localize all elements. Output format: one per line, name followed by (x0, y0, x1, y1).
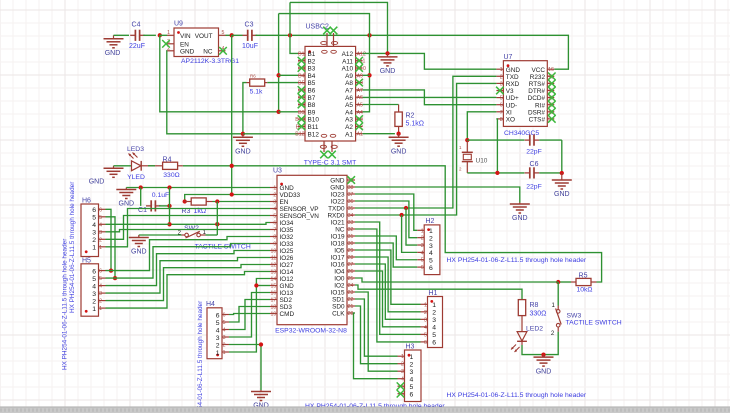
junction A9 VBUS (367, 73, 371, 77)
label LED3 (127, 146, 144, 153)
wire 3V3 LED rail to R5 loop (183, 166, 602, 282)
svg-text:31: 31 (348, 234, 354, 240)
svg-text:4: 4 (401, 377, 404, 383)
svg-text:A1: A1 (357, 132, 363, 138)
switch SW2 (182, 231, 206, 238)
svg-text:IO4: IO4 (334, 269, 345, 276)
svg-text:16: 16 (271, 291, 277, 297)
value 5.1k (250, 89, 263, 96)
svg-text:4: 4 (92, 283, 96, 290)
svg-text:6: 6 (421, 265, 424, 271)
svg-text:IO25: IO25 (280, 248, 294, 255)
crystal U10 (462, 140, 473, 173)
H2 pin stubs (417, 230, 424, 267)
wire B4 to VBUS (279, 74, 298, 76)
value 22pF lower (526, 184, 542, 191)
no-connect X on U9 NC (219, 47, 227, 55)
svg-text:2: 2 (401, 362, 404, 368)
svg-text:5: 5 (421, 258, 424, 264)
svg-text:A9: A9 (357, 73, 363, 79)
wire R8 to LED2 (521, 316, 523, 332)
wire ground to LED3 (114, 165, 132, 167)
svg-text:5.1kΩ: 5.1kΩ (406, 121, 424, 128)
label R3 (182, 208, 191, 215)
value YLED (127, 174, 145, 181)
led LED2 (511, 332, 527, 352)
label R5 (579, 273, 588, 280)
svg-text:5.1k: 5.1k (250, 89, 263, 96)
svg-text:GND: GND (506, 67, 521, 74)
value ESP32-WROOM-32-N8 (275, 327, 347, 334)
svg-text:6: 6 (424, 340, 427, 346)
U3 pin names (280, 178, 346, 319)
USBC2 pin numbers (295, 51, 366, 137)
svg-text:26: 26 (348, 269, 354, 275)
svg-text:SD0: SD0 (332, 304, 345, 311)
svg-text:11: 11 (271, 256, 276, 262)
H2 pin numbers (421, 228, 433, 272)
svg-text:3: 3 (410, 369, 414, 376)
svg-text:5: 5 (410, 384, 414, 391)
svg-text:6: 6 (92, 207, 96, 214)
svg-text:3: 3 (401, 369, 404, 375)
resistor R8 330 (518, 300, 525, 316)
value 0.1uF (152, 192, 169, 199)
wire C4 to VIN junction (143, 34, 156, 36)
svg-text:0.1uF: 0.1uF (152, 192, 169, 199)
svg-text:3: 3 (223, 335, 226, 341)
wire H4 pin5 to SD3 (229, 307, 270, 323)
SW2 pin numbers (178, 230, 207, 236)
svg-text:IO18: IO18 (331, 241, 345, 248)
wire LED3 to R4 (141, 165, 155, 167)
svg-text:4: 4 (273, 207, 276, 213)
svg-text:RI#: RI# (535, 102, 545, 109)
wire H5 pin1 to IO14 (106, 272, 271, 309)
junction IO34 rail at EN vertical (167, 222, 171, 226)
svg-text:IO34: IO34 (280, 220, 294, 227)
ground GND left of EN rail (116, 188, 136, 208)
U7 pin numbers (500, 67, 554, 123)
wire VBUS left vertical (278, 14, 280, 112)
resistor R4 330 (155, 162, 183, 169)
wire A6 to U7 UD+ (363, 96, 497, 98)
svg-text:A4: A4 (357, 110, 363, 116)
svg-text:IO14: IO14 (280, 269, 294, 276)
svg-text:IO23: IO23 (331, 192, 345, 199)
label H1 (429, 290, 438, 297)
svg-text:XO: XO (506, 117, 515, 124)
wire SD0 to H3 pin2 (355, 306, 398, 364)
svg-text:27: 27 (348, 262, 354, 268)
ground GND below SW2 (129, 235, 149, 256)
junction LED2 ground node (541, 352, 545, 356)
ground GND left of LED3 (89, 166, 124, 186)
svg-text:H1: H1 (429, 290, 438, 297)
svg-text:20: 20 (348, 311, 354, 317)
svg-text:1: 1 (424, 302, 427, 308)
svg-text:3: 3 (273, 200, 276, 206)
junction H6 pin5 node (113, 276, 117, 280)
svg-text:5: 5 (216, 320, 220, 327)
svg-text:3: 3 (424, 317, 427, 323)
svg-text:1: 1 (92, 306, 96, 313)
svg-text:DSR#: DSR# (528, 109, 545, 116)
svg-text:3: 3 (216, 335, 220, 342)
svg-text:TXD: TXD (506, 74, 519, 81)
svg-text:1: 1 (429, 228, 433, 235)
label SW3 (567, 313, 582, 320)
U7 pin stubs (496, 69, 554, 119)
junction ground rail B12 (241, 132, 245, 136)
svg-text:VIN: VIN (180, 33, 191, 40)
svg-text:33: 33 (348, 220, 354, 226)
junction R3 right node (215, 199, 219, 203)
svg-text:IO22: IO22 (331, 199, 345, 206)
svg-text:B4: B4 (308, 73, 316, 80)
svg-text:34: 34 (348, 213, 354, 219)
junction H4 pin2 ground node (259, 342, 263, 346)
svg-text:1: 1 (421, 228, 424, 234)
value H4 vertical header text (197, 300, 204, 409)
value H3 header text (447, 392, 587, 399)
value 330ohm R8 (530, 310, 547, 317)
wire GND rail to U3 GND1 (126, 187, 270, 189)
svg-text:H2: H2 (426, 218, 435, 225)
connector H2 body (424, 225, 440, 275)
svg-text:6: 6 (223, 313, 226, 319)
svg-text:4: 4 (99, 222, 102, 228)
svg-text:2: 2 (99, 299, 102, 305)
svg-text:22pF: 22pF (526, 184, 542, 191)
label H5 (82, 257, 91, 264)
svg-text:R4: R4 (163, 156, 172, 163)
ground GND below H4 (251, 390, 271, 410)
junction H6 pin6 node (109, 268, 113, 272)
svg-text:IO13: IO13 (280, 290, 294, 297)
svg-text:5: 5 (424, 332, 427, 338)
svg-text:2: 2 (99, 237, 102, 243)
svg-text:54-01-06-Z-L11.5 through hole: 54-01-06-Z-L11.5 through hole header (197, 300, 204, 409)
svg-text:SD1: SD1 (332, 297, 345, 304)
svg-text:IO15: IO15 (331, 290, 345, 297)
svg-text:6: 6 (500, 103, 503, 109)
wire H4 pin3 to IO13 (229, 293, 270, 338)
svg-text:1: 1 (410, 354, 414, 361)
svg-text:4: 4 (432, 325, 436, 332)
svg-text:6: 6 (432, 340, 436, 347)
svg-text:18: 18 (271, 305, 277, 311)
svg-text:C3: C3 (245, 22, 254, 29)
svg-text:A10: A10 (342, 66, 354, 73)
ground GND below R6 (233, 134, 253, 156)
label R6 (250, 74, 256, 79)
ground GND below R2 (389, 134, 409, 156)
junction SW2 node (215, 222, 219, 226)
svg-text:5: 5 (273, 214, 276, 220)
svg-text:SW2: SW2 (184, 225, 199, 232)
svg-text:4: 4 (92, 222, 96, 229)
svg-text:CMD: CMD (280, 311, 295, 318)
svg-text:5: 5 (99, 276, 102, 282)
svg-text:16: 16 (548, 67, 554, 73)
wire 3V3 vertical to VDD33 (232, 35, 270, 194)
wire H6 pin2 to SENSOR_VN (106, 216, 271, 240)
no-connect X on shield bottom (320, 151, 336, 159)
svg-text:6: 6 (99, 207, 102, 213)
svg-text:2: 2 (410, 362, 414, 369)
svg-text:5: 5 (500, 96, 503, 102)
wire SW2 pin2 to ground (139, 234, 182, 236)
label H6 (82, 197, 91, 204)
U9 pin names (180, 33, 213, 56)
label H3 (406, 344, 415, 351)
resistor R6 5.1k (247, 79, 268, 86)
ground GND near C4 (104, 35, 124, 57)
label SW2 (184, 225, 199, 232)
svg-text:37: 37 (348, 192, 354, 198)
svg-text:GND: GND (330, 178, 345, 185)
wire IO22 to H2 pin2 (355, 201, 417, 238)
wire U7 TXD to ESP32 TXD0 (355, 76, 496, 208)
junction EN vertical node (167, 185, 171, 189)
svg-text:IO19: IO19 (331, 234, 345, 241)
svg-text:14: 14 (271, 277, 277, 283)
svg-text:GND: GND (105, 50, 121, 57)
junction GND15 node (254, 283, 258, 287)
no-connect X on U3 pin39 (347, 176, 355, 184)
wire R5 left to IO0 rail (558, 281, 571, 283)
wire B1 drop (290, 2, 298, 53)
wire A7 to U7 UD- (363, 90, 497, 105)
svg-text:U3: U3 (273, 168, 282, 175)
svg-text:IO26: IO26 (280, 255, 294, 262)
svg-text:H5: H5 (82, 257, 91, 264)
junction crystal pin1 node (465, 138, 469, 142)
wire C1 left drop (140, 188, 142, 206)
wire H5 pin5 to IO33 (106, 244, 271, 279)
svg-text:SD2: SD2 (280, 297, 293, 304)
svg-text:5: 5 (99, 215, 102, 221)
svg-text:2: 2 (216, 342, 220, 349)
svg-text:RTS#: RTS# (529, 81, 546, 88)
wire 3V3 rail to VCC (256, 35, 569, 69)
value TACTILE SWITCH SW3 (566, 320, 622, 327)
label C6 (530, 161, 539, 168)
wire TXD0 to H2 pin3 (406, 208, 417, 245)
svg-text:IO35: IO35 (280, 227, 294, 234)
svg-text:HX PH254-01-06-Z-L11.5 through: HX PH254-01-06-Z-L11.5 through hole head… (69, 181, 76, 313)
svg-text:B7: B7 (308, 95, 316, 102)
svg-text:B5: B5 (298, 81, 304, 87)
svg-text:RXD: RXD (506, 81, 520, 88)
switch SW3 (556, 306, 562, 332)
label USBC2 (306, 23, 329, 30)
capacitor C3 (232, 30, 257, 41)
wire U9 VOUT to C3 (226, 34, 232, 36)
svg-text:B8: B8 (308, 102, 316, 109)
svg-text:A8: A8 (345, 80, 353, 87)
svg-text:2: 2 (421, 236, 424, 242)
junction IO0 node (556, 280, 560, 284)
wire IO19 to H2 pin5 (355, 236, 417, 260)
wire IO5 to H1 pin1 (355, 250, 421, 304)
svg-text:IO5: IO5 (334, 248, 345, 255)
svg-text:CLK: CLK (332, 311, 345, 318)
value 5.1kohm (406, 121, 424, 128)
svg-text:B10: B10 (308, 117, 320, 124)
svg-text:B9: B9 (308, 109, 316, 116)
wire CLK to H3 pin4 (354, 313, 398, 379)
wire U7 RXD to ESP32 RXD0 (355, 83, 496, 215)
label U7 (504, 54, 513, 61)
svg-text:AP2112K-3.3TRG1: AP2112K-3.3TRG1 (181, 58, 239, 65)
resistor R2 5.1k (395, 105, 402, 134)
SW3 pin numbers (551, 303, 556, 337)
wire IO0 rail (355, 278, 558, 282)
svg-text:4: 4 (99, 284, 102, 290)
value 22uF (129, 43, 145, 50)
svg-text:13: 13 (271, 270, 277, 276)
U3 pin numbers (271, 178, 354, 318)
svg-text:VDD33: VDD33 (280, 192, 301, 199)
svg-text:LED3: LED3 (127, 146, 144, 153)
svg-text:A2: A2 (345, 124, 353, 131)
svg-text:U7: U7 (504, 54, 513, 61)
svg-text:24: 24 (348, 283, 354, 289)
svg-text:A6: A6 (357, 95, 363, 101)
capacitor C4 (130, 30, 145, 41)
wire IO18 to H2 pin6 (355, 243, 417, 267)
wire A5 CC1 to R2 (363, 104, 399, 106)
value 10kohm (576, 287, 592, 294)
svg-text:2: 2 (223, 343, 226, 349)
H1 pin numbers (424, 302, 436, 347)
svg-text:5: 5 (429, 258, 433, 265)
resistor R5 10k (571, 278, 597, 285)
connector H6 body (81, 204, 99, 257)
U9 pin stubs (167, 35, 226, 51)
value H2 header text (447, 257, 587, 264)
svg-text:3: 3 (429, 243, 433, 250)
svg-text:IO12: IO12 (280, 276, 294, 283)
junction VDD33 node (230, 192, 234, 196)
led LED3 (129, 153, 142, 171)
svg-text:A12: A12 (342, 51, 354, 58)
junction TXD0 node (404, 206, 408, 210)
svg-text:UD+: UD+ (506, 95, 519, 102)
svg-text:GND: GND (280, 283, 295, 290)
wire VIN rail left (114, 34, 130, 36)
svg-text:H3: H3 (406, 344, 415, 351)
wire VBUS top loop (279, 14, 370, 112)
svg-text:GND: GND (280, 185, 295, 192)
svg-text:B2: B2 (308, 58, 316, 65)
svg-text:GND: GND (512, 215, 528, 222)
label H2 (426, 218, 435, 225)
svg-text:5: 5 (223, 320, 226, 326)
svg-text:32: 32 (348, 227, 354, 233)
svg-text:DCD#: DCD# (528, 95, 546, 102)
op-amp U9 AP2112K regulator body (174, 28, 219, 57)
svg-text:12: 12 (271, 263, 277, 269)
svg-text:GND: GND (235, 149, 251, 156)
label R4 (163, 156, 172, 163)
svg-text:SENSOR_VP: SENSOR_VP (280, 206, 319, 213)
svg-text:7: 7 (500, 110, 503, 116)
svg-text:19: 19 (271, 312, 277, 318)
svg-text:A3: A3 (345, 117, 353, 124)
junction VOUT node (230, 33, 234, 37)
svg-text:22uF: 22uF (129, 43, 145, 50)
junction RXD0 node (399, 213, 403, 217)
svg-text:A11: A11 (342, 58, 353, 65)
svg-text:1: 1 (500, 67, 503, 73)
junction R2 ground node (396, 132, 400, 136)
wire H4 pin2 to ground (229, 345, 261, 391)
svg-text:GND: GND (391, 148, 407, 155)
H5 pin stubs (99, 271, 106, 309)
junction 3V3 rail at x290 (288, 33, 292, 37)
wire H5 pin4 to IO25 (106, 251, 271, 286)
svg-text:2: 2 (92, 298, 96, 305)
svg-text:3: 3 (92, 230, 96, 237)
wire SW2 pin1 up (206, 234, 218, 236)
svg-text:A12: A12 (357, 51, 366, 57)
H1 pin stubs (421, 304, 428, 342)
wire crystal caps ground link (561, 140, 563, 173)
svg-text:LED2: LED2 (526, 326, 543, 333)
svg-text:7: 7 (273, 228, 276, 234)
svg-text:29: 29 (348, 248, 354, 254)
svg-text:9: 9 (273, 242, 276, 248)
wire crystal pin1 to C5 (467, 139, 524, 141)
svg-text:C6: C6 (530, 161, 539, 168)
wire ground rail to B12 (243, 133, 298, 135)
wire IO4 to H1 pin4 (355, 271, 421, 327)
junction XO node (495, 171, 499, 175)
svg-text:C4: C4 (132, 22, 141, 29)
wire GND15 tap (256, 285, 270, 287)
wire R6 to ground rail (243, 83, 247, 134)
svg-text:1: 1 (223, 350, 226, 356)
svg-text:2: 2 (273, 193, 276, 199)
svg-text:GND: GND (330, 185, 345, 192)
svg-text:B4: B4 (298, 73, 304, 79)
svg-text:A6: A6 (345, 95, 353, 102)
wire junction to U9 VIN (160, 34, 167, 36)
svg-text:5: 5 (432, 332, 436, 339)
svg-text:GND: GND (180, 49, 195, 56)
svg-text:4: 4 (223, 328, 226, 334)
no-connect X on H3 pin6 (397, 390, 405, 398)
wire U9 GND down to ground rail (167, 51, 243, 134)
svg-text:21: 21 (348, 304, 354, 310)
wire B9 to VBUS (279, 111, 298, 113)
svg-text:2: 2 (429, 235, 433, 242)
svg-text:H4: H4 (206, 301, 215, 308)
svg-text:VOUT: VOUT (195, 33, 213, 40)
svg-text:B12: B12 (295, 132, 304, 138)
ground GND below A12 wire (378, 53, 398, 75)
capacitor C6 22pF (525, 167, 562, 178)
svg-text:GND: GND (89, 179, 105, 186)
svg-text:28: 28 (348, 255, 354, 261)
svg-text:15: 15 (271, 284, 277, 290)
wire VDD33 branch to R3 (185, 195, 232, 202)
svg-text:4: 4 (424, 325, 427, 331)
wire SW3 drop (557, 282, 559, 306)
